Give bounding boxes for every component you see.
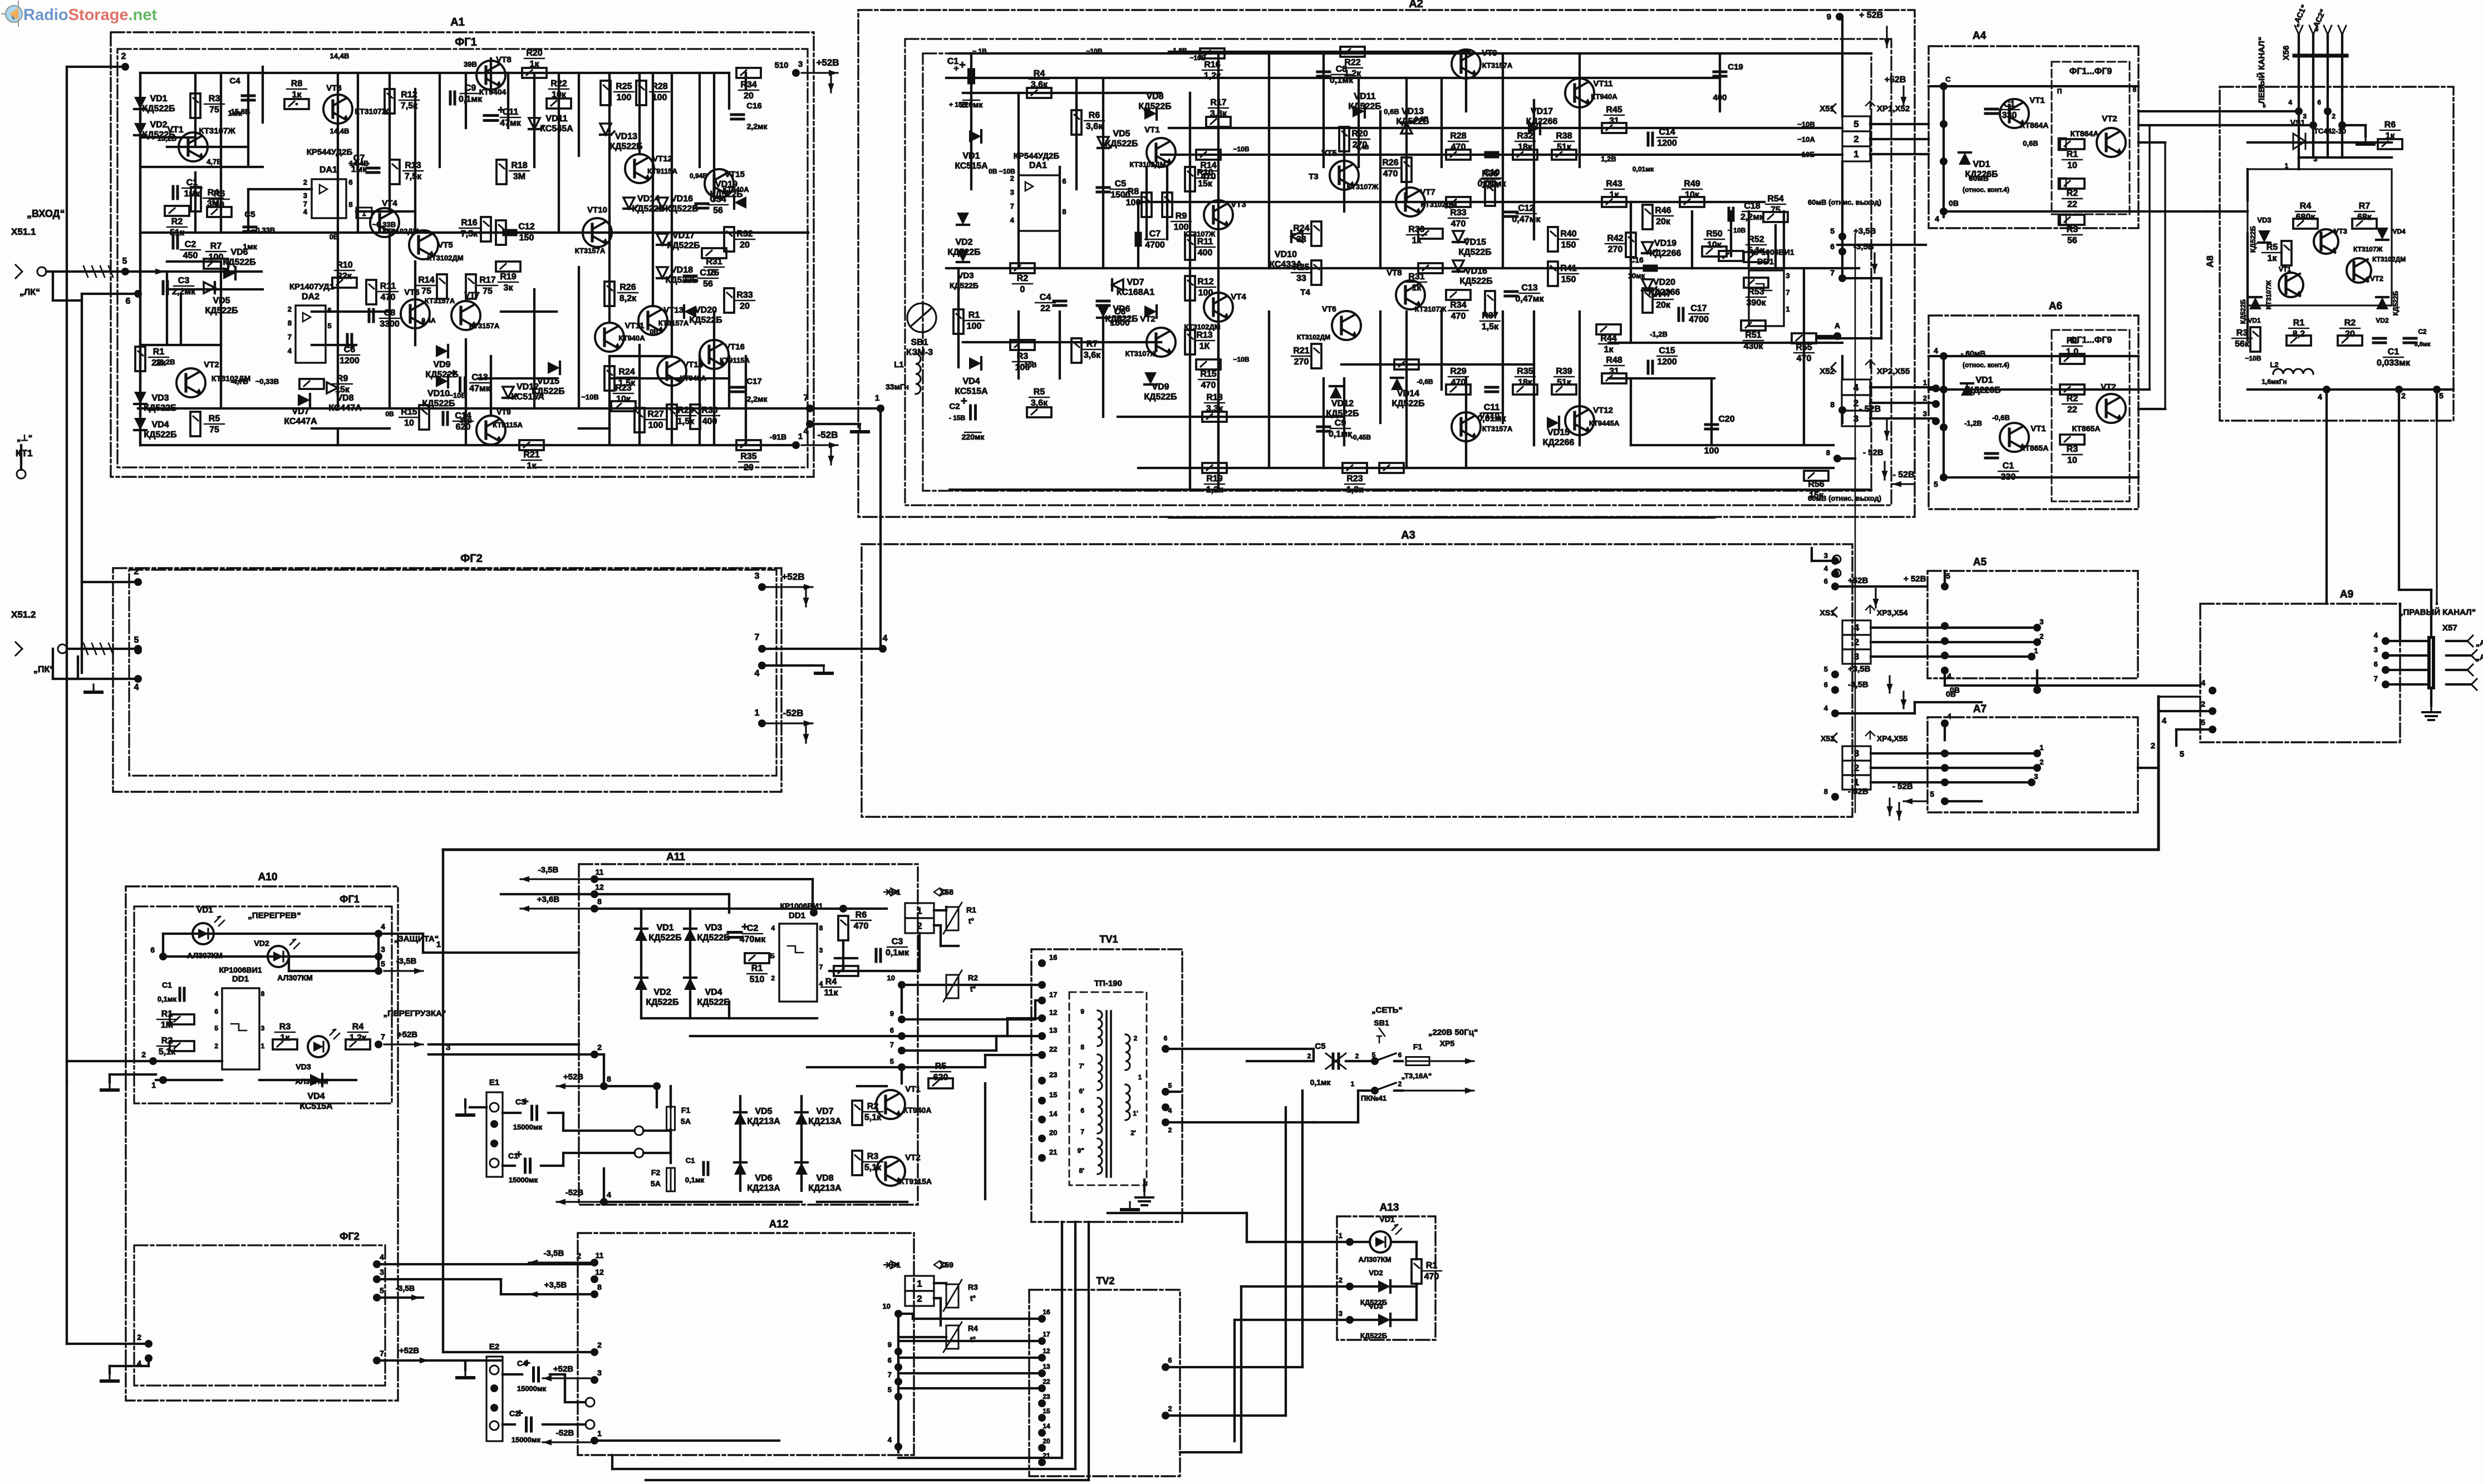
svg-text:КТ940А: КТ940А: [1591, 92, 1617, 101]
svg-text:3: 3: [261, 1024, 265, 1032]
svg-text:1к: 1к: [1604, 345, 1614, 354]
svg-text:0,1мк: 0,1мк: [685, 1176, 705, 1184]
svg-text:680к: 680к: [2296, 213, 2316, 222]
svg-text:С4: С4: [1040, 293, 1051, 302]
svg-text:VT9: VT9: [496, 407, 511, 416]
svg-text:С11: С11: [503, 107, 519, 117]
svg-text:VD17: VD17: [1531, 107, 1553, 116]
svg-text:VT11: VT11: [1593, 79, 1612, 88]
svg-text:R32: R32: [1517, 131, 1533, 141]
svg-text:R3: R3: [2067, 445, 2078, 454]
svg-text:„ЛЕВЫЙ КАНАЛ“: „ЛЕВЫЙ КАНАЛ“: [2256, 37, 2266, 108]
svg-text:КД522Б: КД522Б: [1138, 102, 1171, 111]
svg-text:С8: С8: [384, 308, 396, 318]
svg-text:R1: R1: [161, 1009, 173, 1019]
svg-text:4: 4: [1010, 216, 1015, 224]
svg-text:~10В: ~10В: [1020, 361, 1036, 369]
svg-text:56: 56: [2067, 236, 2077, 245]
svg-text:КД522Б: КД522Б: [144, 403, 176, 413]
svg-text:+: +: [450, 367, 457, 379]
svg-text:9": 9": [1078, 1147, 1084, 1155]
svg-text:2: 2: [1168, 1404, 1172, 1413]
svg-text:470: 470: [1451, 219, 1466, 229]
svg-text:7: 7: [1786, 288, 1789, 297]
svg-text:R15: R15: [1200, 369, 1216, 379]
svg-text:VD3: VD3: [296, 1062, 311, 1071]
svg-text:4,7В: 4,7В: [206, 157, 222, 166]
svg-text:+52В: +52В: [563, 1072, 583, 1082]
svg-text:~10В: ~10В: [1797, 120, 1815, 129]
svg-text:A5: A5: [1973, 556, 1987, 568]
svg-text:4: 4: [381, 922, 385, 931]
svg-text:R28: R28: [1450, 131, 1466, 141]
svg-text:VT1: VT1: [2030, 424, 2046, 433]
svg-text:10к: 10к: [1685, 190, 1700, 200]
svg-text:VT1: VT1: [2029, 96, 2045, 105]
svg-text:5А: 5А: [681, 1117, 691, 1126]
svg-text:-0,45В: -0,45В: [1351, 433, 1371, 441]
svg-text:„Т3,16А“: „Т3,16А“: [1402, 1072, 1432, 1080]
svg-text:22: 22: [1043, 1378, 1050, 1386]
svg-text:4: 4: [1854, 623, 1860, 633]
svg-text:С4: С4: [517, 1359, 527, 1368]
svg-text:-3,5В: -3,5В: [396, 1284, 415, 1293]
svg-text:С1: С1: [2003, 461, 2014, 471]
svg-text:+3,5В: +3,5В: [544, 1280, 567, 1290]
svg-text:VD13: VD13: [615, 132, 637, 141]
svg-text:17: 17: [1049, 990, 1057, 999]
svg-text:4: 4: [1947, 672, 1951, 681]
svg-text:R33: R33: [1450, 208, 1466, 218]
svg-text:8: 8: [819, 924, 823, 932]
svg-text:9: 9: [1827, 12, 1831, 22]
svg-text:R1: R1: [968, 310, 980, 320]
svg-text:A3: A3: [1401, 529, 1415, 541]
svg-text:VD16: VD16: [671, 194, 693, 204]
svg-text:270: 270: [1294, 357, 1309, 367]
svg-text:12: 12: [1043, 1347, 1050, 1355]
svg-text:ФГ1...ФГ9: ФГ1...ФГ9: [2069, 67, 2112, 76]
svg-text:4: 4: [888, 1436, 892, 1444]
svg-text:7,5к: 7,5к: [461, 229, 478, 239]
svg-text:6: 6: [126, 297, 131, 306]
svg-text:VD2: VD2: [653, 988, 671, 997]
svg-text:150: 150: [519, 233, 534, 243]
svg-text:Б: Б: [770, 952, 775, 960]
svg-text:-39В: -39В: [458, 417, 472, 425]
svg-text:R2: R2: [171, 217, 183, 226]
svg-text:14,4В: 14,4В: [330, 52, 350, 60]
svg-text:КД213А: КД213А: [808, 1184, 842, 1193]
svg-text:VT1: VT1: [905, 1084, 921, 1094]
svg-text:20: 20: [1043, 1437, 1050, 1445]
svg-text:КД522Б: КД522Б: [205, 306, 238, 315]
svg-text:КТ940А: КТ940А: [680, 374, 706, 382]
svg-text:R12: R12: [1197, 277, 1213, 287]
svg-text:R11: R11: [1197, 237, 1213, 246]
svg-text:7: 7: [819, 963, 823, 971]
svg-text:VD15: VD15: [1464, 238, 1486, 247]
svg-text:4: 4: [2162, 716, 2167, 726]
svg-text:~ 1В: ~ 1В: [972, 47, 987, 55]
svg-text:10: 10: [214, 200, 224, 210]
svg-text:470: 470: [381, 293, 396, 302]
svg-text:150: 150: [1561, 275, 1576, 284]
svg-text:+52В: +52В: [1848, 576, 1868, 585]
svg-text:0,1мк: 0,1мк: [1310, 1078, 1331, 1087]
svg-text:2: 2: [134, 567, 139, 576]
svg-text:VD8: VD8: [816, 1174, 833, 1183]
svg-text:VD1: VD1: [1973, 160, 1990, 169]
svg-text:3,6к: 3,6к: [1031, 80, 1048, 90]
svg-text:3: 3: [2034, 772, 2038, 781]
svg-text:75: 75: [209, 105, 219, 115]
svg-text:5: 5: [380, 1286, 384, 1295]
svg-text:КТ1: КТ1: [16, 448, 33, 458]
svg-text:VT12: VT12: [1593, 406, 1613, 415]
svg-text:VD1: VD1: [196, 905, 213, 915]
svg-text:R29: R29: [677, 406, 694, 415]
svg-text:5: 5: [2201, 718, 2205, 727]
svg-text:VT6: VT6: [404, 288, 420, 297]
svg-text:3М: 3М: [513, 172, 525, 181]
svg-text:20к: 20к: [1656, 300, 1671, 310]
svg-text:A7: A7: [1973, 703, 1987, 715]
svg-text:С18: С18: [1744, 201, 1760, 211]
svg-text:12: 12: [595, 882, 604, 891]
svg-text:470: 470: [1451, 378, 1466, 387]
svg-text:КР1006ВИ1: КР1006ВИ1: [780, 901, 823, 910]
svg-text:6: 6: [214, 1008, 218, 1015]
svg-text:КД522Б: КД522Б: [532, 387, 564, 396]
svg-text:6: 6: [1824, 681, 1828, 689]
svg-text:2: 2: [917, 1293, 922, 1304]
svg-text:VS1: VS1: [2290, 118, 2305, 127]
svg-text:R3: R3: [867, 1152, 879, 1161]
svg-text:VD10: VD10: [427, 389, 450, 398]
svg-text:КД522Б: КД522Б: [1144, 392, 1177, 402]
svg-text:R35: R35: [1517, 367, 1533, 376]
svg-text:20к: 20к: [1656, 217, 1671, 226]
svg-text:2: 2: [141, 1050, 146, 1059]
svg-text:VD3: VD3: [705, 923, 722, 933]
svg-text:F1: F1: [1413, 1042, 1423, 1051]
svg-text:Т3: Т3: [1309, 172, 1319, 181]
svg-text:VD19: VD19: [1654, 239, 1676, 248]
svg-text:7,5к: 7,5к: [405, 172, 422, 181]
svg-text:КТ3102ДМ: КТ3102ДМ: [2372, 255, 2406, 263]
svg-text:16: 16: [1043, 1308, 1050, 1316]
svg-text:A2: A2: [1409, 0, 1423, 10]
svg-text:R2: R2: [2067, 394, 2078, 403]
svg-text:5: 5: [1930, 790, 1934, 798]
svg-text:~10Б: ~10Б: [1797, 150, 1815, 159]
svg-text:47мк: 47мк: [469, 384, 491, 393]
svg-text:VT5: VT5: [437, 240, 453, 250]
svg-text:R14: R14: [418, 275, 434, 285]
svg-text:5: 5: [327, 322, 331, 330]
svg-text:С5: С5: [1315, 1042, 1325, 1051]
svg-text:R21: R21: [1293, 346, 1309, 356]
svg-text:R41: R41: [1560, 264, 1576, 273]
svg-text:R19: R19: [1206, 474, 1222, 484]
svg-text:51к: 51к: [1557, 142, 1572, 152]
svg-text:VD7: VD7: [1127, 278, 1144, 287]
svg-text:КТ865А: КТ865А: [2020, 443, 2049, 452]
svg-text:R43: R43: [1606, 179, 1622, 189]
svg-text:5: 5: [134, 635, 139, 645]
svg-text:R6: R6: [214, 189, 225, 199]
svg-text:5: 5: [214, 1024, 218, 1032]
svg-text:1: 1: [1138, 1073, 1142, 1081]
svg-text:А: А: [1835, 321, 1840, 330]
svg-text:10: 10: [2067, 456, 2077, 465]
svg-text:КД522Б: КД522Б: [144, 430, 176, 440]
svg-text:КТ3157А: КТ3157А: [575, 246, 606, 255]
svg-text:1,8к: 1,8к: [1346, 485, 1364, 495]
svg-text:22к: 22к: [337, 272, 352, 281]
svg-text:10к: 10к: [616, 395, 631, 404]
svg-text:С13: С13: [1521, 283, 1537, 293]
svg-text:(относ. конт.4): (относ. конт.4): [1963, 361, 2009, 369]
svg-text:КС447А: КС447А: [284, 417, 317, 426]
svg-text:~10В: ~10В: [1086, 47, 1102, 55]
svg-text:1мк: 1мк: [228, 109, 242, 117]
svg-text:7: 7: [1830, 268, 1835, 277]
svg-text:10: 10: [2067, 161, 2077, 170]
svg-text:39В: 39В: [464, 60, 477, 68]
svg-text:R18: R18: [511, 161, 527, 170]
svg-text:A11: A11: [666, 851, 685, 863]
svg-text:1к: 1к: [292, 90, 302, 100]
svg-text:VD3: VD3: [151, 393, 169, 403]
svg-text:4: 4: [804, 427, 809, 436]
svg-text:1': 1': [1133, 1110, 1138, 1117]
svg-text:С4: С4: [229, 76, 240, 86]
svg-text:4: 4: [303, 208, 308, 216]
svg-text:VT2: VT2: [2101, 382, 2116, 392]
svg-text:3300: 3300: [380, 319, 400, 329]
svg-text:400: 400: [1713, 93, 1727, 102]
svg-text:14,4В: 14,4В: [350, 159, 369, 167]
svg-text:VT12: VT12: [652, 154, 672, 164]
svg-text:4: 4: [380, 1253, 384, 1261]
svg-text:47мк: 47мк: [500, 119, 522, 128]
svg-text:8,2к: 8,2к: [619, 294, 637, 303]
svg-text:TV1: TV1: [1099, 934, 1118, 945]
svg-text:20: 20: [744, 463, 754, 472]
svg-text:+52В: +52В: [397, 1030, 417, 1039]
svg-text:VT1: VT1: [2279, 265, 2291, 273]
svg-text:VT6: VT6: [1322, 304, 1336, 313]
svg-text:-0,6В: -0,6В: [1992, 413, 2010, 422]
svg-text:VD12: VD12: [1331, 399, 1354, 408]
svg-text:14: 14: [1043, 1422, 1050, 1430]
svg-text:1,6мкГн: 1,6мкГн: [2261, 378, 2287, 386]
svg-text:VD1: VD1: [656, 923, 673, 933]
svg-text:5: 5: [1830, 226, 1835, 235]
svg-text:„ПЕРЕГРУЗКА“: „ПЕРЕГРУЗКА“: [383, 1009, 446, 1018]
svg-text:4: 4: [2318, 392, 2322, 401]
svg-text:6,8мк: 6,8мк: [2415, 341, 2431, 348]
svg-text:4: 4: [134, 683, 139, 692]
svg-text:14,4В: 14,4В: [330, 127, 350, 135]
svg-text:КТ3157А: КТ3157А: [658, 319, 689, 327]
svg-text:КТ9115А: КТ9115А: [647, 167, 677, 175]
svg-text:8: 8: [597, 1283, 602, 1291]
svg-text:2': 2': [1130, 1129, 1136, 1137]
svg-text:0,47мк: 0,47мк: [1516, 294, 1545, 304]
svg-text:R22: R22: [550, 79, 567, 88]
svg-text:17: 17: [1043, 1330, 1050, 1338]
svg-text:1200: 1200: [1657, 357, 1677, 367]
svg-text:2: 2: [2332, 112, 2336, 120]
svg-text:Е2: Е2: [489, 1342, 499, 1352]
svg-text:КС515А: КС515А: [955, 387, 988, 396]
svg-text:11: 11: [596, 1251, 604, 1260]
svg-text:С9: С9: [465, 83, 476, 93]
svg-text:8: 8: [1062, 208, 1066, 216]
svg-text:-3,5В: -3,5В: [1848, 680, 1869, 689]
svg-text:+52В: +52В: [816, 57, 839, 68]
svg-text:270: 270: [1608, 245, 1623, 254]
svg-text:VT5: VT5: [1321, 149, 1337, 158]
svg-text:R50: R50: [1706, 229, 1722, 239]
svg-text:ХР1,Х52: ХР1,Х52: [1877, 104, 1910, 114]
svg-text:R4: R4: [825, 977, 837, 987]
svg-text:5: 5: [888, 1386, 892, 1394]
svg-text:5: 5: [1934, 480, 1938, 489]
svg-text:R1: R1: [1426, 1261, 1438, 1270]
svg-text:R1: R1: [2067, 150, 2078, 159]
svg-text:КД522Б: КД522Б: [1348, 102, 1381, 111]
svg-text:R24: R24: [618, 367, 635, 377]
svg-text:100: 100: [1174, 223, 1189, 232]
svg-text:1мк: 1мк: [243, 242, 257, 251]
svg-text:КД522Б: КД522Б: [142, 104, 175, 114]
svg-text:R2: R2: [1017, 274, 1029, 283]
svg-text:75: 75: [483, 287, 493, 296]
svg-text:220мк: 220мк: [962, 432, 985, 441]
svg-text:2: 2: [1134, 1034, 1138, 1042]
svg-text:R37: R37: [1482, 311, 1498, 321]
svg-text:КР544УД2Б: КР544УД2Б: [1014, 151, 1060, 161]
svg-text:VD11: VD11: [1354, 92, 1375, 101]
svg-text:8,2: 8,2: [2293, 329, 2305, 339]
svg-text:2,2мк: 2,2мк: [747, 395, 768, 403]
svg-text:2: 2: [1339, 1276, 1343, 1284]
svg-text:R15: R15: [401, 407, 417, 417]
svg-text:VD20: VD20: [695, 305, 717, 315]
svg-text:R2: R2: [2067, 189, 2078, 198]
svg-text:0В: 0В: [385, 410, 394, 418]
svg-text:0,033мк: 0,033мк: [2377, 358, 2411, 368]
svg-text:4: 4: [2201, 678, 2205, 687]
svg-text:+3,5В: +3,5В: [1848, 664, 1871, 674]
svg-text:R3: R3: [968, 1283, 978, 1291]
svg-text:+3,6В: +3,6В: [537, 895, 560, 904]
svg-text:VD15: VD15: [1547, 428, 1570, 437]
svg-text:4: 4: [1947, 712, 1951, 721]
svg-text:R2: R2: [161, 1036, 173, 1046]
svg-text:КС515А: КС515А: [955, 161, 988, 171]
svg-text:VT8: VT8: [1386, 268, 1402, 278]
svg-text:1: 1: [1339, 1231, 1343, 1240]
svg-text:VD3: VD3: [957, 271, 973, 280]
svg-text:DA1: DA1: [1029, 161, 1047, 170]
svg-text:КР544УД2Б: КР544УД2Б: [307, 147, 353, 157]
svg-text:23: 23: [1043, 1393, 1050, 1401]
svg-text:-4,7В: -4,7В: [230, 377, 248, 386]
svg-text:3: 3: [380, 1268, 384, 1276]
svg-text:R6: R6: [1089, 111, 1100, 120]
svg-text:-13,2В: -13,2В: [153, 358, 175, 366]
svg-text:R30: R30: [701, 406, 717, 415]
svg-text:8: 8: [348, 200, 352, 209]
svg-text:-1,2В: -1,2В: [1964, 419, 1982, 427]
svg-text:R25: R25: [1293, 263, 1309, 272]
svg-text:2: 2: [288, 305, 292, 313]
svg-text:8': 8': [1079, 1167, 1084, 1175]
svg-text:КТ3107Ж: КТ3107Ж: [1347, 183, 1379, 191]
svg-text:R46: R46: [1655, 206, 1671, 215]
svg-text:R51: R51: [1745, 331, 1761, 340]
svg-text:VD4: VD4: [705, 988, 722, 997]
svg-text:„АС1“: „АС1“: [2476, 638, 2483, 647]
svg-text:510: 510: [750, 975, 765, 984]
svg-text:КТ9445А: КТ9445А: [1589, 419, 1620, 427]
svg-text:~10В: ~10В: [2245, 354, 2261, 362]
svg-text:+ 15В: + 15В: [949, 101, 967, 109]
svg-text:1к: 1к: [2268, 254, 2278, 263]
svg-text:VT16: VT16: [725, 342, 745, 352]
svg-text:VD14: VD14: [1397, 389, 1419, 398]
svg-text:8: 8: [2133, 86, 2137, 93]
svg-text:R1: R1: [153, 347, 165, 357]
svg-text:R13: R13: [1196, 331, 1212, 340]
svg-text:R5: R5: [209, 414, 220, 423]
svg-text:R38: R38: [1556, 131, 1572, 141]
svg-text:R16: R16: [1204, 60, 1220, 70]
svg-text:R3: R3: [2236, 328, 2248, 338]
svg-text:R11: R11: [380, 282, 396, 291]
svg-text:SВ1: SВ1: [1374, 1018, 1389, 1027]
svg-text:15000мк: 15000мк: [513, 1123, 543, 1131]
svg-text:7: 7: [890, 1041, 894, 1049]
svg-text:5: 5: [1946, 571, 1950, 580]
svg-text:R5: R5: [2266, 243, 2278, 252]
svg-text:10к: 10к: [552, 90, 567, 100]
svg-text:VT8: VT8: [496, 55, 512, 65]
svg-text:7': 7': [1079, 1062, 1084, 1070]
svg-text:L2: L2: [2270, 361, 2278, 369]
svg-text:- 52В: - 52В: [1863, 448, 1884, 457]
svg-text:3: 3: [1923, 410, 1927, 418]
svg-text:A12: A12: [769, 1219, 789, 1230]
svg-text:R8: R8: [291, 79, 303, 88]
svg-text:VT10: VT10: [587, 205, 607, 215]
svg-text:2: 2: [214, 1042, 218, 1050]
svg-text:ФГ2: ФГ2: [460, 553, 483, 565]
svg-text:С3: С3: [178, 276, 190, 285]
svg-text:2: 2: [577, 1251, 581, 1261]
svg-text:7: 7: [2374, 674, 2378, 683]
svg-text:R54: R54: [1767, 194, 1783, 204]
svg-text:VT4: VT4: [382, 199, 397, 208]
svg-text:R21: R21: [523, 450, 539, 460]
svg-text:2: 2: [2151, 741, 2155, 751]
svg-text:R19: R19: [500, 272, 516, 282]
